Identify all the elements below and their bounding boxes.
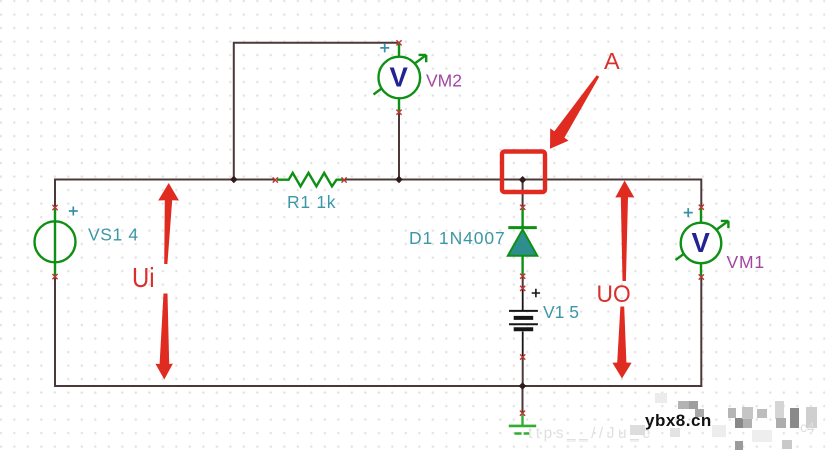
pin mark VM2 top [396, 40, 401, 45]
battery V1 [509, 290, 538, 357]
svg-text:V1 5: V1 5 [543, 302, 579, 322]
pin mark D1 bottom [520, 274, 525, 279]
svg-text:V: V [390, 61, 409, 92]
ground symbol [509, 415, 536, 434]
wire top rail right segment [344, 179, 701, 181]
watermark mosaic blocks [630, 393, 817, 450]
wire ground stub [522, 386, 524, 413]
svg-text:c4: c4 [800, 419, 815, 435]
wire bottom rail [54, 385, 702, 387]
wire top bypass from node N1 to VM2 top [234, 43, 398, 180]
pin mark R1 left [273, 177, 278, 182]
pin mark D1 top [520, 205, 525, 210]
voltmeter VM2 [374, 44, 427, 112]
wire left branch lower [54, 277, 56, 387]
svg-text:R1 1k: R1 1k [287, 192, 336, 212]
diode D1 1N4007 [508, 209, 538, 276]
svg-text:VS1 4: VS1 4 [88, 225, 139, 245]
annotation arrow Ui down [155, 294, 173, 380]
pin mark VS1 bottom [52, 274, 57, 279]
annotation arrow Ui up [158, 183, 179, 264]
pin mark R1 right [342, 177, 347, 182]
svg-text:V: V [692, 227, 711, 258]
VM2 plus polarity mark [380, 43, 389, 52]
svg-text:D1 1N4007: D1 1N4007 [409, 228, 506, 248]
VS1 plus polarity mark [69, 207, 78, 216]
node ground junction [519, 382, 527, 390]
pin mark VM2 bottom [396, 110, 401, 115]
resistor R1 [277, 173, 343, 187]
pin mark VM1 bottom [699, 274, 704, 279]
pin mark V1 bottom [520, 354, 525, 359]
wire node A to diode D1 [522, 180, 524, 208]
VM1 plus polarity mark [684, 208, 693, 217]
svg-text:UO: UO [597, 280, 631, 307]
wire right branch lower [700, 277, 702, 387]
annotation arrow UO up [615, 181, 634, 282]
svg-text:Ui: Ui [132, 264, 155, 294]
wire left branch upper [54, 179, 56, 208]
pin mark VS1 top [52, 205, 57, 210]
wire VM2 stub [398, 112, 400, 179]
annotation red square at node A [502, 152, 545, 193]
voltage source VS1 [35, 209, 76, 276]
node N2 junction [395, 176, 403, 184]
svg-text:A: A [604, 48, 620, 74]
wire right branch upper [700, 179, 702, 208]
wire top rail left segment [55, 179, 275, 181]
pin mark VM1 top [699, 205, 704, 210]
node A junction [519, 176, 527, 184]
pin mark ground [520, 411, 525, 416]
svg-text:ybx8.cn: ybx8.cn [645, 411, 712, 430]
annotation arrow UO down [612, 307, 631, 379]
wire battery V1 bottom [522, 357, 524, 386]
V1 plus polarity mark [532, 289, 540, 297]
annotation arrow A pointing to node A [550, 75, 599, 149]
wire diode D1 to battery V1 [522, 276, 524, 289]
node N1 junction [230, 176, 238, 184]
voltmeter VM1 [676, 208, 729, 276]
svg-text:VM2: VM2 [426, 71, 462, 91]
svg-text:VM1: VM1 [727, 252, 765, 272]
pin mark V1 top [520, 286, 525, 291]
